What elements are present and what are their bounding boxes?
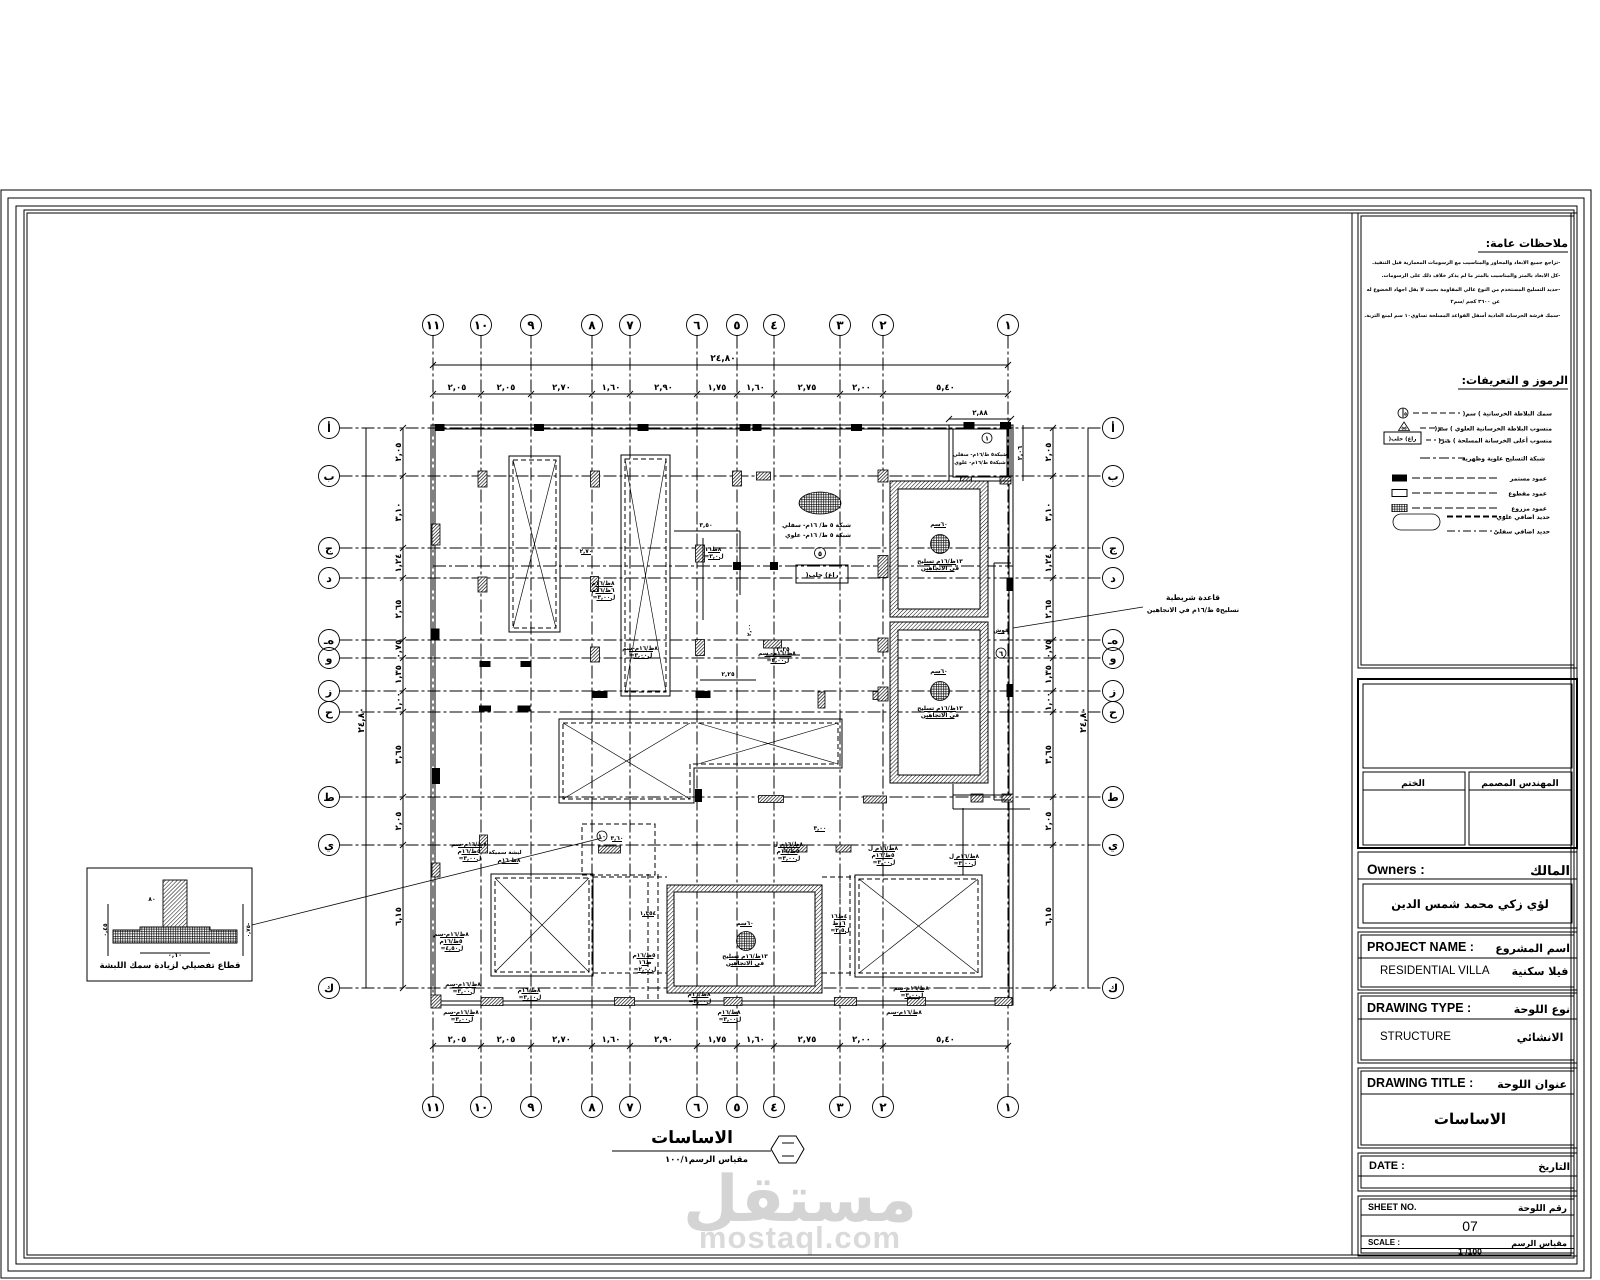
cluster below wall right xyxy=(887,1010,922,1016)
stamp table xyxy=(1363,772,1465,845)
rebar annotation xyxy=(832,914,847,918)
detail dim col xyxy=(148,897,154,901)
rebar annotation xyxy=(773,842,803,848)
grid row line ح xyxy=(340,711,1103,713)
legend row slab thickness xyxy=(1398,408,1408,418)
grid bubble column ٩ bottom xyxy=(521,1097,542,1118)
water tank room B xyxy=(890,622,988,783)
legend row top steel xyxy=(1447,515,1497,517)
tank A slab circle xyxy=(931,535,950,554)
room R top dimension xyxy=(949,418,1011,420)
grid bubble column ١ bottom xyxy=(998,1097,1019,1118)
grid bubble column ١٠ bottom xyxy=(471,1097,492,1118)
grid bubble row د right xyxy=(1103,568,1124,589)
rebar annotation xyxy=(931,669,947,674)
svg-text:mostaql.com: mostaql.com xyxy=(699,1220,901,1255)
rebar annotation xyxy=(918,706,963,712)
grid column line ٩ xyxy=(530,336,532,1097)
grid bubble row ك left xyxy=(319,978,340,999)
cluster below wall mid xyxy=(718,1010,741,1016)
rebar annotation xyxy=(623,646,658,652)
grid column line ١٠ xyxy=(480,336,482,1097)
drawing title box xyxy=(1358,1068,1577,1148)
rebar annotation xyxy=(452,842,487,848)
grid bubble column ٥ top xyxy=(727,315,748,336)
rebar annotation xyxy=(706,547,722,551)
grid row line ج xyxy=(340,547,1103,549)
rebar annotation xyxy=(949,854,979,860)
svg-text:DATE :: DATE : xyxy=(1369,1160,1405,1172)
rebar annotation xyxy=(641,911,656,916)
grid bubble column ٣ top xyxy=(830,315,851,336)
strip connector dashes xyxy=(593,876,667,878)
footing F3 L-shaped xyxy=(559,719,842,803)
detail box frame xyxy=(87,868,252,981)
svg-text:RESIDENTIAL VILLA: RESIDENTIAL VILLA xyxy=(1380,965,1490,977)
grid column line ٧ xyxy=(629,336,631,1097)
legend row bottom steel xyxy=(1393,514,1440,530)
rebar annotation xyxy=(868,846,898,852)
svg-text:PROJECT NAME :: PROJECT NAME : xyxy=(1367,940,1474,954)
footing F1 (cols 9-10) xyxy=(509,456,560,632)
room R circle label xyxy=(982,433,992,443)
grid bubble row ك right xyxy=(1103,978,1124,999)
grid row line و xyxy=(340,657,1103,659)
grid column line ٢ xyxy=(882,336,884,1097)
grid bubble column ١٠ top xyxy=(471,315,492,336)
grid bubble column ٢ bottom xyxy=(873,1097,894,1118)
drawing type box xyxy=(1358,993,1577,1063)
grid bubble row ز right xyxy=(1103,681,1124,702)
grid column line ١ xyxy=(1007,336,1009,1097)
grid bubble row ي right xyxy=(1103,835,1124,856)
grid column line ١١ xyxy=(432,336,434,1097)
grid bubble column ٩ top xyxy=(521,315,542,336)
right dimension chain xyxy=(1052,428,1054,988)
grid bubble row ط right xyxy=(1103,787,1124,808)
grid row line ط xyxy=(340,796,1103,798)
grid row line أ xyxy=(340,427,1103,429)
detail dim right xyxy=(242,904,244,956)
rebar annotation xyxy=(894,986,929,992)
grid bubble row ي left xyxy=(319,835,340,856)
notes box xyxy=(1358,213,1577,668)
grid bubble column ٦ top xyxy=(687,315,708,336)
detail column hatched xyxy=(163,880,187,927)
grid bubble column ٨ bottom xyxy=(582,1097,603,1118)
grid bubble column ٧ top xyxy=(620,315,641,336)
annotation circled 6 corridor xyxy=(996,648,1006,658)
overall right dimension 24.80 xyxy=(1087,428,1089,988)
legend row planted column xyxy=(1392,505,1407,512)
level box xyxy=(796,565,848,583)
notes line 5 xyxy=(1365,312,1560,318)
rebar annotation xyxy=(994,628,1009,633)
watermark mostaql arabic xyxy=(687,1172,912,1231)
grid bubble column ٤ top xyxy=(764,315,785,336)
grid bubble row د left xyxy=(319,568,340,589)
notes line 4 xyxy=(1451,299,1500,304)
grid bubble column ١١ top xyxy=(423,315,444,336)
water tank room A xyxy=(890,481,988,617)
overall top dimension 24.80 xyxy=(433,364,1008,366)
stamp box inner empty xyxy=(1363,684,1572,768)
circled 5 label xyxy=(815,548,826,559)
footing F5 (bottom right) xyxy=(855,875,982,977)
grid bubble row و left xyxy=(319,648,340,669)
rebar annotation xyxy=(592,581,615,587)
cluster below wall left xyxy=(444,1010,479,1016)
rebar annotation xyxy=(518,988,541,994)
plan title scale xyxy=(666,1156,747,1165)
grid bubble column ٤ bottom xyxy=(764,1097,785,1118)
room R text xyxy=(953,452,1006,457)
grid bubble row ز left xyxy=(319,681,340,702)
tank B slab circle xyxy=(931,682,950,701)
grid bubble column ٦ bottom xyxy=(687,1097,708,1118)
intermediate grid line xyxy=(433,565,1013,567)
more column blocks xyxy=(878,556,888,578)
detail caption xyxy=(100,962,240,971)
notes line 3 xyxy=(1367,287,1560,292)
svg-text:STRUCTURE: STRUCTURE xyxy=(1380,1031,1451,1043)
owners name box xyxy=(1363,884,1572,923)
rebar annotation xyxy=(580,549,592,554)
svg-text:Owners :: Owners : xyxy=(1367,862,1425,877)
grid bubble column ٥ bottom xyxy=(727,1097,748,1118)
svg-text:DRAWING TITLE :: DRAWING TITLE : xyxy=(1367,1076,1473,1090)
mesh note text xyxy=(782,522,850,528)
grid row line ز xyxy=(340,690,1103,692)
north hexagon xyxy=(771,1136,804,1163)
water tank room C xyxy=(667,885,822,993)
detail leader line xyxy=(252,838,602,925)
grid column line ٨ xyxy=(591,336,593,1097)
grid bubble row ب left xyxy=(319,466,340,487)
grid row line ي xyxy=(340,844,1103,846)
small dim 2.35 midplan xyxy=(766,654,800,656)
border frame 4 xyxy=(24,210,1574,1258)
grid bubble row ج left xyxy=(319,538,340,559)
rebar annotation xyxy=(611,836,623,841)
project box xyxy=(1358,932,1577,990)
grid bubble column ١١ bottom xyxy=(423,1097,444,1118)
notes line 2 xyxy=(1382,273,1560,278)
rebar annotation xyxy=(446,982,481,988)
grid row line د xyxy=(340,577,1103,579)
grid bubble row ب right xyxy=(1103,466,1124,487)
footing F2 (cols 7-8) xyxy=(621,455,670,696)
grid bubble row و right xyxy=(1103,648,1124,669)
wall and grid column blocks xyxy=(435,424,445,431)
legend row stopped column xyxy=(1392,490,1407,497)
legend row mesh xyxy=(1420,457,1465,459)
grid bubble row أ left xyxy=(319,418,340,439)
drawing title content xyxy=(1435,1113,1505,1125)
title panel divider xyxy=(1351,213,1353,1255)
rebar annotation xyxy=(723,954,768,960)
grid row line ب xyxy=(340,475,1103,477)
rebar annotation xyxy=(434,932,469,938)
sheet box xyxy=(1358,1196,1577,1256)
rebar annotation xyxy=(737,921,753,926)
small dim 3.00 col6 xyxy=(674,530,740,532)
step platform xyxy=(952,784,954,809)
footing F4 (bottom left) xyxy=(491,874,593,976)
grid bubble column ١ top xyxy=(998,315,1019,336)
grid bubble column ٢ top xyxy=(873,315,894,336)
room R right dimension xyxy=(1022,425,1024,481)
combined footing dashed xyxy=(582,824,655,875)
grid bubble row هـ right xyxy=(1103,630,1124,651)
rebar annotation xyxy=(931,522,947,527)
top dimension chain xyxy=(433,393,1008,395)
legend row continuous column xyxy=(1392,475,1407,482)
legend row slab level xyxy=(1399,422,1410,431)
detail footing slab xyxy=(113,927,237,943)
plan title xyxy=(652,1130,731,1143)
legend row concrete level xyxy=(1384,432,1421,444)
grid bubble column ٧ bottom xyxy=(620,1097,641,1118)
grid bubble row ج right xyxy=(1103,538,1124,559)
svg-text:SHEET NO.: SHEET NO. xyxy=(1368,1202,1417,1212)
grid bubble row أ right xyxy=(1103,418,1124,439)
stamp box outer xyxy=(1358,679,1577,848)
room R outline xyxy=(949,425,1011,481)
svg-text:DRAWING TYPE :: DRAWING TYPE : xyxy=(1367,1001,1471,1015)
grid bubble row ط left xyxy=(319,787,340,808)
grid bubble row هـ left xyxy=(319,630,340,651)
grid row line ك xyxy=(340,987,1103,989)
rebar annotation xyxy=(498,858,520,864)
left dimension chain xyxy=(402,428,404,988)
grid bubble row ح right xyxy=(1103,702,1124,723)
tank C slab circle xyxy=(737,932,756,951)
grid bubble column ٣ bottom xyxy=(830,1097,851,1118)
rebar annotation xyxy=(918,559,963,565)
slab hatch ellipse xyxy=(799,492,841,514)
rebar annotation xyxy=(633,953,655,959)
owners box xyxy=(1358,852,1577,928)
corridor lines xyxy=(993,563,995,800)
rebar annotation xyxy=(814,826,826,831)
small dim 3.25 f5 xyxy=(700,679,756,681)
overall left dimension 24.80 xyxy=(365,428,367,988)
plan title underline xyxy=(612,1150,771,1152)
notes heading xyxy=(1487,239,1567,248)
svg-text:07: 07 xyxy=(1462,1218,1478,1234)
svg-text:SCALE :: SCALE : xyxy=(1368,1238,1400,1247)
rebar annotation xyxy=(758,651,795,657)
grid bubble row ح left xyxy=(319,702,340,723)
detail dim bottom xyxy=(140,952,210,954)
grid column line ٤ xyxy=(773,336,775,1097)
grid column line ٦ xyxy=(696,336,698,1097)
rebar annotation xyxy=(688,992,711,998)
svg-text:1 /100: 1 /100 xyxy=(1458,1247,1482,1257)
grid column line ٥ xyxy=(736,336,738,1097)
border frame 5 xyxy=(27,213,1571,1255)
detail dim left xyxy=(107,904,109,956)
grid column line ٣ xyxy=(839,336,841,1097)
date box xyxy=(1358,1153,1577,1191)
grid row line هـ xyxy=(340,639,1103,641)
plan outer wall xyxy=(431,425,1013,1005)
strip footing note xyxy=(1166,594,1219,602)
legend heading xyxy=(1463,376,1567,387)
notes line 1 xyxy=(1373,260,1560,265)
bottom dimension chain xyxy=(433,1045,1008,1047)
grid bubble column ٨ top xyxy=(582,315,603,336)
